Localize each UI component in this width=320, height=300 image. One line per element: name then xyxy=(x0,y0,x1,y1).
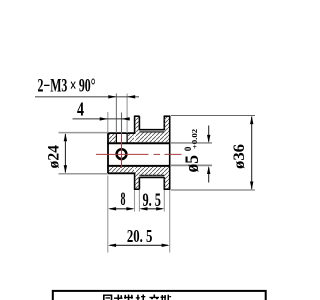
flange right xyxy=(164,116,171,189)
dimension 8 xyxy=(108,207,135,210)
flange left step faces xyxy=(134,116,140,189)
hatching hub top band xyxy=(109,134,116,143)
dimension phi36 xyxy=(250,116,253,190)
hatching right section bottom xyxy=(135,167,169,189)
hatching hub bottom band xyxy=(109,167,134,173)
dimension phi24 xyxy=(64,133,67,173)
grey extension lines top xyxy=(108,94,127,135)
set screw hole circle xyxy=(117,149,127,159)
bore lines xyxy=(107,143,169,166)
grey extension lines phi24 xyxy=(59,133,109,174)
red centerline vertical M3 axis xyxy=(121,134,123,168)
hatching right section top xyxy=(135,117,169,142)
svg-text:8: 8 xyxy=(121,189,126,210)
leader 2-M3 xyxy=(35,95,139,98)
svg-text:2−M3 × 90°: 2−M3 × 90° xyxy=(38,77,96,97)
tooth tip and root lines top xyxy=(139,130,164,132)
svg-text:ø5: ø5 xyxy=(182,155,203,173)
hub outline xyxy=(107,133,135,173)
M3 hole edges in top band xyxy=(116,133,127,143)
extension lines phi5 bore xyxy=(171,142,212,144)
dimension 4 xyxy=(73,117,131,120)
svg-text:9. 5: 9. 5 xyxy=(142,190,161,211)
title text (CJK glyph tops drawn manually) xyxy=(103,295,171,300)
title block border xyxy=(53,291,266,300)
svg-text:+0.02: +0.02 xyxy=(190,129,199,150)
svg-text:ø24: ø24 xyxy=(46,145,63,169)
extension lines phi36 xyxy=(171,116,255,191)
dimension phi5 xyxy=(207,126,210,183)
svg-text:4: 4 xyxy=(77,98,84,120)
dimension 9.5 xyxy=(139,207,164,210)
grey extension lines bottom xyxy=(108,176,170,253)
red centerline horizontal xyxy=(96,153,182,155)
tooth tip and root lines bottom xyxy=(139,175,164,177)
dimension 20.5 xyxy=(108,244,170,247)
svg-text:20. 5: 20. 5 xyxy=(127,226,153,246)
svg-text:0: 0 xyxy=(184,146,194,151)
svg-text:ø36: ø36 xyxy=(231,144,248,169)
